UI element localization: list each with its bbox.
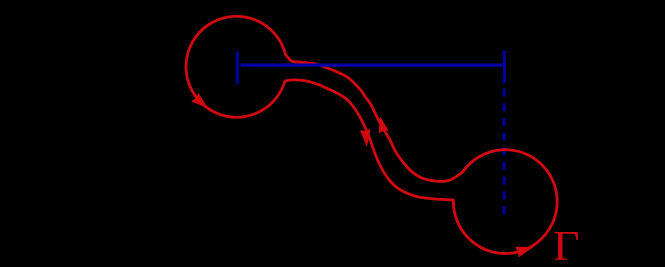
arrow on right circle bottom	[515, 247, 533, 258]
left tick (branch point)	[236, 51, 239, 83]
arrow on upper channel wall (up)	[379, 117, 389, 134]
blue horizontal segment (branch cut)	[241, 63, 503, 66]
label Gamma	[553, 226, 579, 267]
arrow on left circle	[191, 93, 208, 108]
contour Gamma (red): left circle, channel walls, right circle	[186, 16, 557, 253]
dashed vertical line below right branch point	[503, 89, 506, 215]
arrow on lower channel wall (down)	[360, 129, 370, 147]
right tick (branch point)	[503, 51, 506, 83]
